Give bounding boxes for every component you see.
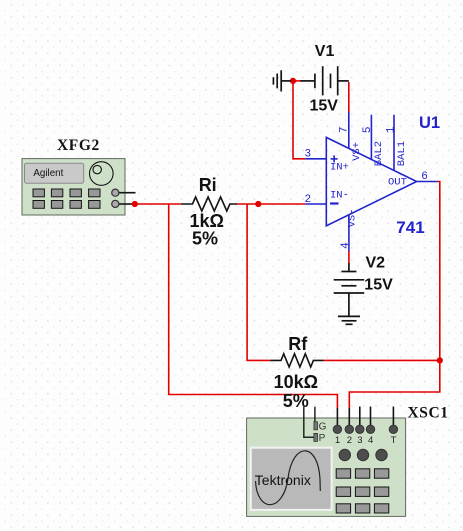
svg-text:OUT: OUT bbox=[388, 176, 407, 188]
svg-text:1: 1 bbox=[385, 126, 397, 133]
XFG2 buttons bbox=[33, 189, 100, 208]
svg-text:P: P bbox=[319, 433, 326, 444]
function generator XFG2 body bbox=[22, 159, 125, 215]
svg-text:5%: 5% bbox=[283, 391, 309, 411]
XSC1 screen bbox=[251, 448, 332, 510]
svg-text:VS-: VS- bbox=[347, 208, 359, 227]
wire V1 negative terminal to ground junction bbox=[293, 80, 302, 82]
wire op-amp output down and left to scope channel 2 bbox=[349, 182, 440, 409]
svg-text:5: 5 bbox=[362, 126, 374, 133]
XSC1 sine wave bbox=[256, 451, 321, 505]
XSC1 G probe stub bbox=[304, 407, 315, 438]
svg-text:15V: 15V bbox=[364, 277, 393, 294]
junction dot at output / Rf bbox=[437, 357, 443, 363]
svg-text:IN-: IN- bbox=[330, 189, 349, 201]
XSC1 channel 3 pin stub bbox=[359, 407, 361, 426]
XSC1 channel 1 pin stub bbox=[336, 408, 338, 425]
wire left loop from input net down and right to scope channel 1 bbox=[169, 204, 338, 408]
wire ground junction down to op-amp pin 3 (IN+) bbox=[293, 81, 305, 159]
XSC1 G pin bbox=[314, 422, 318, 430]
pin 4 stub bbox=[348, 215, 350, 251]
resistor Rf bbox=[270, 354, 323, 367]
svg-text:G: G bbox=[319, 422, 327, 433]
svg-text:2: 2 bbox=[305, 194, 312, 206]
plus mark at IN+ bbox=[331, 158, 338, 160]
svg-text:IN+: IN+ bbox=[330, 161, 349, 173]
svg-text:V2: V2 bbox=[366, 254, 386, 271]
svg-text:4: 4 bbox=[340, 242, 352, 249]
svg-text:Agilent: Agilent bbox=[33, 168, 63, 179]
svg-text:BAL2: BAL2 bbox=[373, 141, 385, 166]
svg-text:15V: 15V bbox=[310, 97, 339, 114]
wire Rf right lead to output node bbox=[324, 359, 440, 361]
resistor Ri bbox=[181, 197, 237, 211]
XSC1 trigger pin stub bbox=[392, 407, 394, 426]
XSC1 knobs bbox=[339, 449, 350, 460]
svg-text:5%: 5% bbox=[192, 229, 218, 249]
svg-text:XFG2: XFG2 bbox=[57, 137, 100, 154]
svg-text:7: 7 bbox=[338, 126, 350, 133]
svg-text:XSC1: XSC1 bbox=[408, 405, 449, 422]
svg-text:Ri: Ri bbox=[199, 175, 217, 195]
svg-text:2: 2 bbox=[347, 435, 352, 446]
wire op-amp pin 4 (VS-) to V2 bbox=[348, 251, 350, 263]
XSC1 P pin bbox=[314, 433, 318, 441]
pin 2 stub bbox=[305, 203, 326, 205]
minus mark at IN- bbox=[330, 202, 339, 204]
junction dot at XFG2 output bbox=[132, 201, 138, 207]
XSC1 terminal channel 2 bbox=[345, 425, 353, 433]
pin 1 stub bbox=[393, 115, 395, 171]
XSC1 channel 4 pin stub bbox=[370, 407, 372, 426]
XFG2 bottom terminal stub bbox=[118, 203, 132, 205]
svg-text:741: 741 bbox=[396, 218, 424, 237]
XSC1 input stubs ch1 ch2 ch3 ch4 T bbox=[337, 407, 393, 426]
XSC1 terminal channel 4 bbox=[366, 425, 374, 433]
XFG2 terminal (bottom, signal output) bbox=[112, 200, 119, 207]
battery V2 bbox=[334, 263, 365, 316]
svg-text:6: 6 bbox=[421, 171, 428, 183]
wire inverting net down to Rf left lead bbox=[247, 204, 270, 360]
XSC1 terminal T (trigger) bbox=[389, 425, 397, 433]
ground (below V2) bbox=[338, 316, 360, 324]
svg-text:3: 3 bbox=[305, 149, 312, 161]
pin 7 stub bbox=[348, 112, 350, 149]
pin 6 output stub bbox=[417, 181, 438, 183]
XSC1 channel 2 pin stub bbox=[348, 408, 350, 425]
svg-text:10kΩ: 10kΩ bbox=[274, 372, 318, 392]
junction dot at V1 minus / ground bbox=[290, 78, 296, 84]
XFG2 terminal (top, unused) bbox=[112, 189, 119, 196]
wire V1 positive terminal down to op-amp pin 7 (VS+) bbox=[348, 82, 350, 112]
XFG2 knob bbox=[90, 162, 114, 186]
XSC1 terminal channel 1 bbox=[333, 425, 341, 433]
ground (left of V1) bbox=[273, 70, 281, 91]
junction dot on input net bbox=[255, 201, 261, 207]
battery V1 bbox=[281, 66, 349, 95]
oscilloscope XSC1 body bbox=[247, 418, 406, 516]
wire Ri right lead to op-amp pin 2 (inverting net) bbox=[237, 203, 305, 205]
svg-text:VS+: VS+ bbox=[351, 142, 363, 161]
XFG2 top terminal stub bbox=[119, 192, 136, 194]
XSC1 buttons bbox=[336, 469, 389, 513]
wire XFG2 output to Ri left lead (input net) bbox=[131, 203, 181, 205]
svg-text:Tektronix: Tektronix bbox=[255, 472, 311, 488]
XSC1 terminal channel 3 bbox=[356, 425, 364, 433]
svg-text:3: 3 bbox=[357, 435, 362, 446]
pin 5 stub bbox=[370, 115, 372, 160]
svg-text:4: 4 bbox=[368, 435, 373, 446]
svg-text:U1: U1 bbox=[419, 114, 440, 132]
svg-text:1: 1 bbox=[335, 435, 340, 446]
pin 3 stub bbox=[305, 158, 326, 160]
op-amp U1 triangle bbox=[305, 112, 437, 251]
XFG2 display bbox=[25, 163, 84, 183]
svg-text:T: T bbox=[391, 435, 397, 446]
svg-text:Rf: Rf bbox=[288, 334, 308, 354]
svg-text:V1: V1 bbox=[315, 43, 335, 60]
svg-text:BAL1: BAL1 bbox=[396, 141, 408, 166]
